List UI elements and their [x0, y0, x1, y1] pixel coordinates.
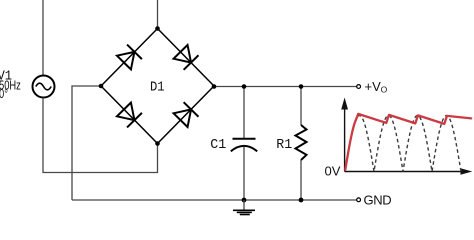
svg-text:0°: 0°	[0, 88, 8, 102]
diode D1b top-right	[173, 45, 198, 70]
ground	[233, 200, 255, 215]
wire bottom rail	[72, 199, 357, 201]
waveform x-axis	[345, 168, 473, 174]
wire V1 top vertical	[42, 0, 44, 76]
svg-text:O: O	[381, 85, 388, 95]
label V1	[0, 68, 12, 84]
label 50Hz	[0, 79, 21, 93]
node C1 bottom	[242, 198, 247, 203]
label D1	[150, 79, 165, 95]
svg-text:0V: 0V	[325, 164, 341, 179]
node top	[155, 26, 160, 31]
label C1	[210, 138, 226, 153]
red output waveform	[345, 114, 471, 170]
resistor R1	[296, 87, 307, 200]
node R1 bottom	[299, 198, 304, 203]
label 0 deg	[0, 88, 8, 102]
terminal GND	[357, 198, 361, 202]
wire +Vo rail	[214, 86, 357, 88]
terminal +Vo	[357, 85, 361, 89]
node right	[212, 84, 217, 89]
label R1	[276, 138, 292, 153]
svg-text:+V: +V	[365, 79, 382, 94]
svg-text:D1: D1	[150, 79, 165, 95]
diode D1d bottom-right	[173, 102, 198, 127]
dashed rectified sine	[358, 116, 461, 172]
wire left node to left rail down	[72, 86, 101, 200]
node left	[99, 84, 104, 89]
svg-text:R1: R1	[276, 138, 292, 153]
wire V1 bottom to lower corner	[43, 98, 158, 173]
diode D1c bottom-left	[117, 102, 142, 127]
voltage source V1	[33, 76, 55, 98]
waveform y-axis	[341, 98, 348, 172]
svg-text:C1: C1	[210, 138, 226, 153]
node bottom	[155, 141, 160, 146]
capacitor C1	[231, 87, 257, 200]
svg-text:GND: GND	[364, 193, 392, 208]
bridge rectifier D1 diamond	[101, 29, 214, 144]
node R1 top	[299, 84, 304, 89]
diode D1a top-left	[117, 45, 142, 70]
node C1 top	[242, 84, 247, 89]
wire bridge top vertical	[157, 0, 159, 29]
